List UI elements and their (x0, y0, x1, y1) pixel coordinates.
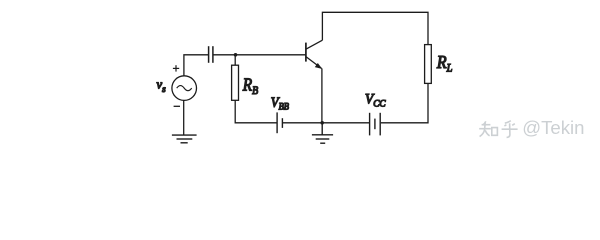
svg-text:VCC: VCC (365, 91, 386, 109)
watermark zhihu logo 知 (479, 121, 497, 136)
ground (emitter) (312, 123, 333, 143)
wire emitter down (321, 68, 323, 122)
watermark emboss highlight (478, 120, 516, 137)
wire RB bottom to VBB (235, 100, 276, 123)
transistor Q1 (306, 40, 323, 68)
svg-text:@Tekin: @Tekin (522, 117, 584, 138)
resistor RL (425, 45, 432, 84)
wire VBB to emitter node (283, 122, 322, 124)
wire source bottom to ground (183, 101, 185, 136)
battery VBB (277, 112, 282, 133)
wire VCC to RL bottom (381, 83, 428, 122)
battery VCC (370, 113, 381, 136)
wire emitter node to VCC (322, 122, 369, 124)
svg-text:RB: RB (242, 75, 259, 98)
watermark zhihu logo 乎 (502, 121, 518, 138)
node emitter junction (320, 121, 324, 125)
source vs (172, 76, 197, 101)
wire source top to capacitor (184, 55, 208, 76)
svg-text:vs: vs (157, 78, 167, 94)
svg-text:RL: RL (436, 52, 452, 74)
node base junction (234, 53, 238, 57)
ground (source) (172, 135, 197, 143)
capacitor C1 (209, 46, 213, 63)
wire RL top rail to collector (322, 12, 428, 44)
wire capacitor to base (214, 54, 306, 56)
plus sign (173, 65, 179, 71)
wire junction down to RB (234, 55, 236, 65)
minus sign (174, 105, 180, 107)
svg-text:VBB: VBB (271, 94, 290, 111)
resistor RB (232, 65, 239, 100)
